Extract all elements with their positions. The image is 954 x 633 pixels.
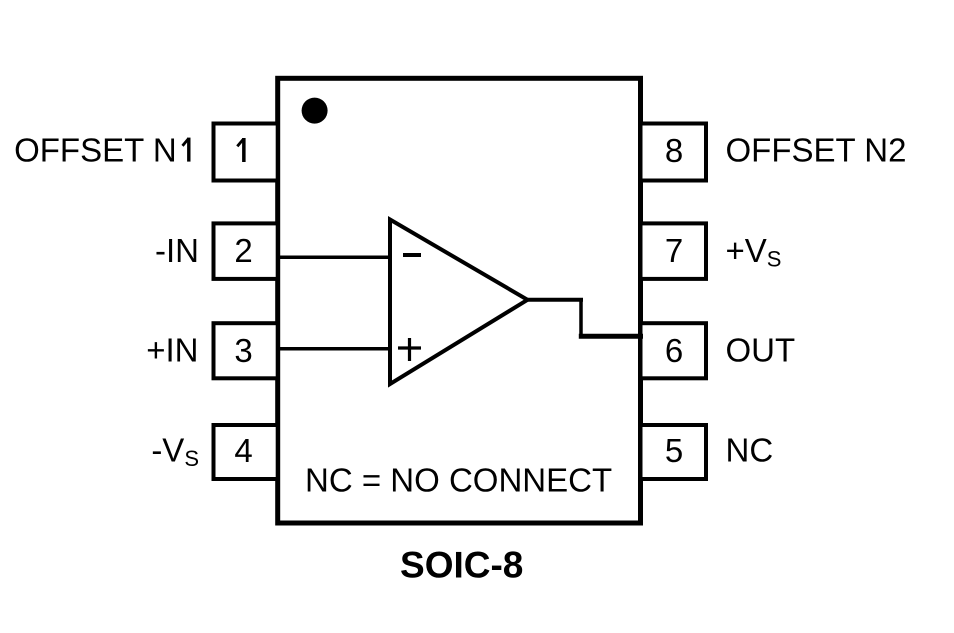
svg-text:NC: NC: [726, 432, 774, 469]
IC body outline U1: [278, 78, 641, 523]
wire from op-amp output, horizontal segment: [528, 298, 584, 302]
pin box 2: [214, 223, 278, 279]
output wire vertical step segment: [579, 298, 583, 339]
pin box 3: [214, 323, 278, 378]
op-amp A1 triangle: [390, 220, 528, 385]
svg-text:2: 2: [234, 232, 252, 269]
wire from pin 3 to op-amp non-inverting input: [278, 347, 390, 351]
svg-text:SOIC-8: SOIC-8: [400, 545, 523, 586]
svg-text:6: 6: [665, 332, 683, 369]
svg-text:-VS: -VS: [151, 432, 199, 472]
pin box 6: [641, 323, 707, 378]
wire from pin 2 to op-amp inverting input: [278, 255, 390, 259]
pin number 1 (drawn glyph): [237, 138, 245, 162]
svg-text:NC = NO CONNECT: NC = NO CONNECT: [305, 462, 612, 499]
op-amp minus sign (inverting input): [403, 253, 421, 257]
svg-text:+IN: +IN: [146, 332, 198, 369]
svg-text:5: 5: [665, 432, 683, 469]
svg-text:+VS: +VS: [726, 232, 782, 272]
svg-text:OUT: OUT: [726, 332, 796, 369]
pin box 4: [214, 425, 278, 479]
pin box 5: [641, 425, 707, 479]
pin box 7: [641, 223, 707, 279]
svg-text:4: 4: [234, 432, 252, 469]
pin box 1: [214, 124, 278, 181]
svg-text:-IN: -IN: [155, 232, 199, 269]
svg-text:OFFSET N: OFFSET N: [14, 132, 177, 169]
svg-text:7: 7: [665, 232, 683, 269]
label OFFSET N1 (pin 1): [14, 132, 190, 169]
svg-text:OFFSET N2: OFFSET N2: [726, 132, 907, 169]
svg-text:3: 3: [234, 332, 252, 369]
svg-text:8: 8: [665, 132, 683, 169]
op-amp plus sign (non-inverting input): [398, 338, 421, 361]
pin box 8: [641, 124, 707, 181]
output wire lower horizontal segment into pin 6: [579, 334, 643, 339]
pin 1 marker dot: [302, 98, 328, 124]
